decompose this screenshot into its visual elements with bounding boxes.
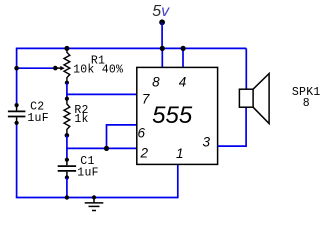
svg-text:7: 7: [142, 92, 150, 107]
wire 5v drop: [161, 22, 163, 48]
svg-text:10k 40%: 10k 40%: [73, 64, 123, 77]
svg-text:555: 555: [152, 102, 193, 129]
wire pin 2: [67, 147, 137, 149]
wire top rail: [16, 47, 247, 49]
junction pin8-rail: [160, 46, 165, 51]
svg-text:2: 2: [139, 145, 148, 160]
ground: [85, 195, 104, 210]
op-amp U1 555 box: [137, 67, 218, 164]
wire R2 bottom to C1 top: [66, 135, 68, 159]
wire left rail upper: [16, 48, 18, 105]
svg-text:5v: 5v: [152, 3, 170, 20]
svg-text:3: 3: [202, 135, 210, 150]
wire top rail drop to speaker: [245, 48, 247, 89]
svg-text:8: 8: [303, 97, 310, 110]
junction C1-bottom rail: [65, 195, 69, 199]
wire bottom rail and pin1 riser: [16, 164, 178, 197]
junction pin6-pin2: [104, 146, 109, 151]
wire pin 7: [67, 93, 137, 95]
wire wiper: [16, 67, 54, 69]
node 5v dot: [159, 19, 165, 25]
svg-text:8: 8: [152, 75, 160, 90]
wire pin 8 stub: [161, 48, 163, 67]
wire pin 6: [107, 125, 137, 148]
svg-text:1uF: 1uF: [77, 167, 98, 180]
svg-text:1uF: 1uF: [27, 112, 48, 125]
capacitor C2: [8, 103, 26, 125]
svg-text:6: 6: [137, 126, 145, 141]
capacitor C1: [58, 158, 76, 180]
wire pin 4 stub: [182, 48, 184, 67]
resistor R2: [64, 97, 70, 138]
wire left rail lower: [16, 123, 18, 198]
svg-text:1: 1: [176, 146, 184, 161]
wire pin 3 to speaker: [218, 107, 247, 146]
junction pin4-rail: [181, 46, 186, 51]
speaker SPK1: [239, 74, 269, 124]
wire R1 bottom to R2 top: [66, 83, 68, 99]
wire C1 bottom: [66, 178, 68, 198]
junction wiper-leftrail: [14, 66, 19, 71]
svg-text:4: 4: [179, 75, 187, 90]
svg-text:1k: 1k: [74, 113, 88, 126]
potentiometer R1: [53, 46, 70, 85]
